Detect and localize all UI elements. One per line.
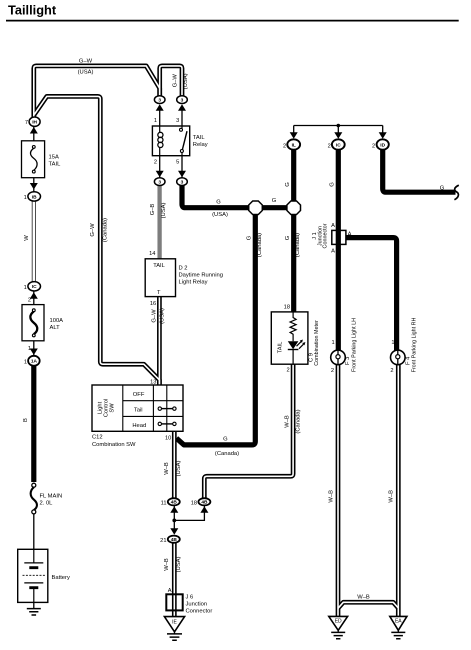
label G (USA) at relay output [212,200,228,218]
label C12 Combination SW [92,434,136,448]
wire 7-IH to fuse [33,124,35,142]
svg-text:G: G [223,437,228,443]
svg-text:Front Parking Light LH: Front Parking Light LH [351,318,357,372]
label G (Canada) at switch output [215,437,239,457]
connector 3 relay top-left [154,96,165,104]
DOUBLE LINE WIRES black pass [34,66,399,618]
wire 18-4B to junction [175,504,204,520]
wire G-W (USA) U-branch to tail relay pin3 [160,66,182,97]
svg-text:W: W [24,235,30,241]
ARROWS [30,104,387,535]
svg-text:3: 3 [181,98,184,104]
bulb F4 Front Parking Light RH [391,350,406,365]
svg-text:2: 2 [28,297,31,303]
svg-text:3: 3 [176,118,179,124]
label J6 Junction Connector [186,594,213,614]
connector 7-IH [29,117,40,126]
svg-text:16: 16 [150,301,156,307]
wire battery to ground [33,602,35,608]
fusible link FL MAIN 2.0L [31,483,37,514]
label D2 Daytime Running Light Relay [179,265,223,285]
wire G from connector 2-ID to page edge [383,148,456,192]
svg-text:3: 3 [158,98,161,104]
splice octagon 1 [249,201,263,215]
svg-text:T: T [157,290,161,296]
arrow into 7-IH [30,127,38,134]
label G (Canada) rotated below splice1 [247,233,263,257]
wire W between 1-IB and 1-IC [32,199,36,283]
svg-text:Head: Head [132,423,146,429]
battery box [18,549,48,602]
connector 3 relay bottom-left [154,178,165,186]
svg-text:(USA): (USA) [161,203,167,219]
arrow into relay-bottom oval 3 right [178,171,186,178]
wire FL MAIN to battery [33,513,35,550]
svg-text:TAIL: TAIL [49,162,62,168]
arrow into 1-1A [30,349,38,356]
arrow into relay-top oval 3 left [156,104,164,111]
svg-text:14: 14 [149,251,155,257]
svg-text:1: 1 [391,340,394,346]
svg-text:Connector: Connector [186,608,213,614]
svg-text:C12: C12 [92,434,103,440]
svg-text:7: 7 [25,120,28,126]
connector 21-4B [168,536,180,543]
wire relay pin3 [181,107,183,127]
svg-text:18: 18 [191,500,197,506]
wire ALT to 1-IC [33,289,35,305]
connector 11-4B [168,498,180,506]
arrow into relay-bottom oval 3 left [156,171,164,178]
svg-text:Battery: Battery [52,575,70,581]
node dot at 4B junction [172,519,176,523]
arrow into 1-IB [30,183,38,190]
svg-text:21: 21 [160,538,166,544]
label W-B (USA) rotated below switch [164,461,182,477]
connector 3 relay top-right [177,96,188,104]
svg-text:4B: 4B [171,500,178,506]
relay D2 Daytime Running Light Relay box [145,259,175,297]
svg-text:1: 1 [332,340,335,346]
ground EA [390,616,407,638]
arrow into relay-top oval 3 right [178,104,186,111]
svg-text:W–B: W–B [389,490,395,503]
svg-text:Tail: Tail [134,408,143,414]
svg-text:IC: IC [336,142,341,148]
svg-text:ALT: ALT [50,325,61,331]
svg-text:(Canada): (Canada) [257,233,263,257]
svg-text:11: 11 [161,500,167,506]
svg-text:G–B: G–B [150,204,156,216]
connector 1-IB [28,192,41,201]
svg-text:1: 1 [24,285,27,291]
splice octagon 2 [287,201,301,215]
wire G-W (USA) from D2 relay pin16 to combination switch pin13 [157,295,162,386]
svg-text:OFF: OFF [133,392,145,398]
wire G (Canada) from splice down to combination meter pin18 [291,208,296,313]
svg-text:G: G [216,200,221,206]
svg-text:Connector: Connector [323,223,329,248]
svg-text:G: G [272,198,277,204]
svg-text:D 2: D 2 [179,265,188,271]
ground below battery [27,609,41,615]
svg-text:(USA): (USA) [176,557,182,573]
wire G (Canada) from splice down-left to combination switch pin10 [176,213,255,445]
svg-text:4B: 4B [201,500,208,506]
wire T-bar feeding connectors 2-IL 2-IC 2-ID [294,126,383,135]
svg-text:IH: IH [32,120,37,126]
junction connector J6 [166,594,182,610]
wire B from connector 1-1A to FL MAIN [31,363,36,482]
svg-text:2: 2 [154,160,157,166]
svg-text:Light Relay: Light Relay [179,279,208,285]
DOUBLE LINE WIRES white core pass [34,66,399,618]
svg-text:2: 2 [390,368,393,374]
wire G from connector 2-IC down through J1 to front parking light LH [336,148,341,351]
svg-text:15A: 15A [49,155,59,161]
arrow into 1-IC [30,292,38,299]
connector 1-1A [28,356,40,366]
svg-text:2. 0L: 2. 0L [40,501,54,507]
wire W-B from parking light RH to ground EA [396,364,401,617]
bulb F3 Front Parking Light LH [331,350,346,365]
svg-text:A: A [331,248,335,254]
wire relay pin5 [181,156,183,180]
wire G branch from J1 to front parking light RH [346,238,397,351]
label G-B (USA) rotated [150,203,167,219]
wire fuse to 1-IB [33,178,35,194]
LED TAIL indicator [288,341,299,349]
svg-text:A: A [168,588,172,594]
svg-text:3: 3 [181,180,184,186]
fusible link 100A ALT [22,305,44,341]
svg-text:G: G [247,235,253,240]
wire relay pin2 [159,156,161,180]
svg-text:4B: 4B [171,537,178,543]
svg-text:G: G [285,235,291,240]
svg-text:10: 10 [165,435,171,441]
svg-text:1A: 1A [31,359,38,365]
svg-text:W–B: W–B [328,490,334,503]
arrow into 21-4B [170,528,178,535]
svg-text:18: 18 [284,304,290,310]
arrow into 2-IL [290,132,298,139]
svg-text:F 3: F 3 [345,357,351,365]
ground ED [329,616,348,638]
arrow into 11-4B [170,506,178,513]
svg-text:A: A [331,223,335,229]
svg-text:1: 1 [24,359,27,365]
label G-W (USA) top [78,58,94,75]
arrow into 2-IC [334,132,342,139]
relay TAIL Relay box [152,126,189,156]
fuse 15A TAIL [22,141,45,178]
label G (Canada) rotated below splice2 [285,233,301,257]
meter C9 Combination Meter box [271,312,308,364]
svg-text:(Canada): (Canada) [295,233,301,257]
svg-text:B: B [23,418,29,422]
svg-text:G–W: G–W [90,223,96,237]
svg-text:(Canada): (Canada) [215,451,239,457]
THIN CONNECTION LINES [34,107,383,608]
wire G-W (USA) from 7-IH up over to tail relay pin1 [34,66,160,119]
continuation squiggle at page edge [454,185,458,200]
svg-text:G: G [329,182,335,187]
label C9 Combination Meter rotated [308,320,320,366]
relay coil [159,126,161,156]
svg-text:Relay: Relay [193,142,208,148]
svg-text:IE: IE [172,619,177,625]
wire W-B (Canada) from meter pin2 to 18-4B [204,363,293,500]
svg-text:2: 2 [287,368,290,374]
svg-text:Daytime Running: Daytime Running [179,272,223,278]
svg-text:IB: IB [32,194,37,200]
wire 11-4B to 21-4B [173,504,175,530]
svg-text:W–B: W–B [164,462,170,475]
connector 2-IL [287,139,300,149]
connector 18-4B [198,498,210,506]
node dot on T-bar [337,124,341,128]
svg-text:2: 2 [328,143,331,149]
label 100A ALT [50,318,64,331]
svg-text:100A: 100A [50,318,64,324]
svg-text:TAIL: TAIL [153,263,165,269]
svg-text:(Canada): (Canada) [102,218,108,242]
connector 1-IC [28,282,41,291]
svg-text:G: G [285,182,291,187]
wire relay pin1 [159,107,161,127]
svg-text:W–B: W–B [164,558,170,571]
svg-text:(USA): (USA) [183,73,189,89]
svg-text:2: 2 [331,368,334,374]
label G-W (Canada) rotated long wire [90,218,108,242]
svg-text:Front Parking Light RH: Front Parking Light RH [412,317,418,372]
arrow into 18-4B [200,506,208,513]
svg-text:TAIL: TAIL [278,342,284,354]
svg-text:G: G [440,186,445,192]
wire ALT to 1-1A [33,341,35,358]
switch contact Tail row [158,407,161,410]
label TAIL Relay [193,135,208,148]
junction connector J1 [332,230,346,244]
wire W-B link between grounds [338,602,398,608]
svg-text:(USA): (USA) [176,461,182,477]
label J1 Junction Connector rotated [312,223,329,248]
svg-text:13: 13 [150,380,156,386]
connector 3 relay bottom-right [177,178,188,186]
ground IE [164,617,184,641]
label G-W (USA) rotated below D2 [151,308,165,324]
svg-text:(USA): (USA) [160,308,166,324]
wire W-B from parking light LH to ground ED [336,364,341,617]
svg-text:(USA): (USA) [78,70,94,76]
svg-text:G–W: G–W [172,74,178,88]
label G-W (USA) rotated at relay feed [172,73,188,89]
svg-text:W–B: W–B [285,415,291,428]
label W-B (Canada) rotated below C9 [285,409,302,433]
relay switch contacts [181,126,183,156]
svg-text:5: 5 [176,160,179,166]
svg-text:1: 1 [28,346,31,352]
connector 2-IC [332,139,345,149]
svg-text:(USA): (USA) [212,212,228,218]
resistor in meter [290,312,296,341]
label W-B (USA) rotated below 21-4B [164,557,182,573]
wire G-B (USA) gray from tail relay pin2 to D2 relay [157,184,161,259]
svg-text:1: 1 [154,118,157,124]
svg-text:Combination SW: Combination SW [92,442,136,448]
svg-text:IC: IC [32,284,37,290]
title Taillight [6,2,459,20]
switch contact Head row [158,422,161,425]
svg-text:Combination Meter: Combination Meter [314,320,320,366]
wire W-B (USA) from switch pin10 down to 11-4B [172,430,177,500]
label FL MAIN 2.0L [40,494,63,507]
svg-text:TAIL: TAIL [193,135,206,141]
wire W-B (USA) from 21-4B through J6 to ground IE [172,542,177,618]
svg-text:W–B: W–B [357,595,370,601]
svg-text:Taillight: Taillight [8,2,57,17]
switch C12 Combination SW box [92,385,183,431]
svg-text:3: 3 [158,180,161,186]
arrow into 2-ID [379,132,387,139]
svg-text:J 6: J 6 [186,594,194,600]
connector 2-ID [377,139,389,149]
label 15A TAIL [49,155,62,168]
svg-text:IL: IL [292,142,296,148]
svg-text:EA: EA [395,619,402,625]
wire G (USA) from tail relay pin5 to splice [182,183,294,208]
svg-text:2: 2 [372,143,375,149]
svg-text:ID: ID [380,142,385,148]
label F3 Front Parking Light LH rotated [345,318,357,372]
svg-text:FL MAIN: FL MAIN [40,494,63,500]
svg-text:1: 1 [24,195,27,201]
svg-text:ED: ED [335,619,342,625]
svg-text:Junction: Junction [186,601,208,607]
label F4 Front Parking Light RH rotated [406,317,418,372]
svg-text:SW: SW [110,403,116,413]
wire G-W (Canada) from 7-IH down to combination switch pin13 [34,96,159,386]
label Light Control SW rotated [98,399,116,417]
svg-text:(Canada): (Canada) [296,409,302,433]
wire G from splice up to connector 2-IL [291,148,296,208]
svg-text:G–W: G–W [151,309,157,323]
svg-text:G–W: G–W [79,58,93,64]
svg-text:2: 2 [283,143,286,149]
svg-text:A: A [348,231,352,237]
